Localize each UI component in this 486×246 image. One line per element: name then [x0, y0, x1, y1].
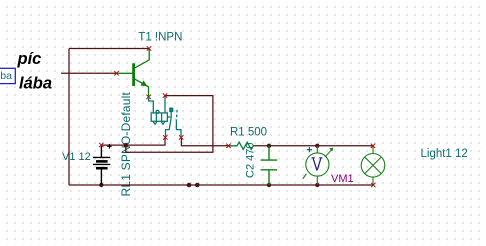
junction VM1 bottom	[315, 183, 319, 187]
voltmeter arrow head	[329, 148, 333, 152]
port box ba	[0, 68, 15, 83]
junction VM1 top	[315, 144, 319, 148]
svg-text:R1 500: R1 500	[230, 127, 267, 139]
battery V1	[93, 144, 112, 185]
node battery top X	[99, 143, 103, 147]
junction plus rail	[124, 143, 128, 147]
svg-text:lába: lába	[19, 74, 52, 92]
wire switch to R1	[181, 138, 228, 146]
node emitter X	[146, 95, 150, 99]
svg-text:V1 12: V1 12	[62, 151, 91, 163]
relay RL1 coil right pin	[164, 96, 166, 113]
lamp Light1	[361, 146, 385, 185]
node switch left pin X	[163, 135, 167, 139]
svg-text:T1 !NPN: T1 !NPN	[138, 31, 182, 43]
voltmeter V glyph	[312, 158, 323, 171]
wire top (collector rail)	[69, 48, 149, 50]
transistor Q T1	[117, 49, 150, 97]
voltmeter VM1	[303, 146, 332, 185]
voltmeter plus	[307, 147, 312, 152]
node collector X	[147, 46, 151, 50]
wire battery plus rail	[101, 138, 165, 146]
node switch right pin X	[179, 135, 183, 139]
relay RL1 switch	[166, 108, 182, 137]
resistor R1	[229, 142, 254, 149]
svg-text:ba: ba	[0, 70, 12, 82]
capacitor C2	[261, 146, 278, 185]
node R1 left X	[226, 144, 230, 148]
junction C2 top	[267, 144, 271, 148]
svg-text:Light1 12: Light1 12	[421, 148, 468, 160]
node coil top X	[163, 93, 167, 97]
wire R1 to lamp rail	[254, 145, 374, 147]
junction C2 bottom	[267, 183, 271, 187]
relay RL1 coil body	[151, 110, 167, 124]
junction bottom rail a	[187, 183, 192, 188]
node base X	[114, 71, 118, 75]
wire base	[61, 72, 117, 74]
wire bottom rail	[69, 184, 373, 186]
junction bottom rail b	[195, 183, 200, 188]
wire coil return loop	[126, 96, 213, 153]
node lamp bottom X	[371, 183, 375, 187]
svg-text:píc: píc	[17, 50, 42, 68]
relay RL1 coil left pin	[149, 97, 154, 113]
svg-text:VM1: VM1	[331, 173, 354, 185]
junction battery bottom	[99, 183, 103, 187]
wire left vertical	[68, 49, 70, 186]
transistor emitter arrow	[141, 80, 148, 86]
node lamp top X	[371, 144, 375, 148]
